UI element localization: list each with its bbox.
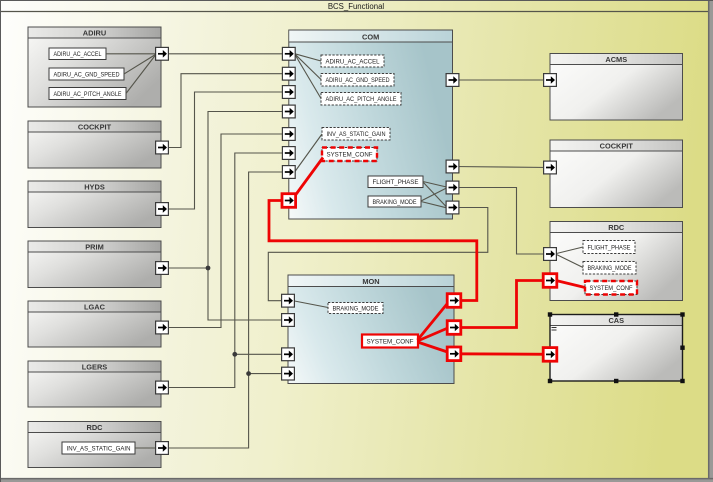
- port MON.outB red: [447, 321, 461, 335]
- block COM: [289, 30, 453, 219]
- block ACMS: [550, 54, 683, 121]
- label COM ADIRU_AC_GND_SPEED: [321, 74, 394, 87]
- port HYDS.out: [156, 203, 169, 216]
- wire PRIM branch to MON port2: [208, 268, 288, 320]
- svg-text:CAS: CAS: [608, 316, 624, 325]
- block COCKPIT left: [28, 121, 161, 168]
- svg-text:SYSTEM_CONF: SYSTEM_CONF: [327, 152, 373, 159]
- block LGAC: [28, 301, 161, 347]
- port COCKPITright.in: [544, 161, 557, 174]
- svg-text:PRIM: PRIM: [85, 242, 103, 251]
- red line MON SYSTEM_CONF to outA: [418, 302, 450, 341]
- block LGERS: [28, 361, 161, 407]
- block HYDS: [28, 181, 161, 228]
- line RDCright port to BRAKING_MODE: [557, 255, 584, 268]
- red wire MON SYSTEM_CONF to COM SYSTEM_CONF: [269, 201, 477, 301]
- port PRIM.out: [156, 262, 169, 275]
- port COM.in2: [282, 67, 295, 80]
- line FLIGHT_PHASE to out3: [423, 182, 447, 188]
- svg-text:BRAKING_MODE: BRAKING_MODE: [588, 265, 632, 272]
- label COM BRAKING_MODE: [368, 196, 421, 207]
- svg-text:COCKPIT: COCKPIT: [78, 122, 112, 131]
- label COM ADIRU_AC_PITCH_ANGLE: [321, 93, 401, 106]
- port MON.in3: [282, 348, 295, 361]
- red line MON SYSTEM_CONF to outC: [418, 342, 450, 353]
- svg-text:ADIRU_AC_GND_SPEED: ADIRU_AC_GND_SPEED: [326, 77, 390, 84]
- red wire MON SYSTEM_CONF to CAS: [454, 352, 550, 355]
- wire PRIM to COM port4: [162, 112, 288, 269]
- wire COM out2 to COCKPIT: [453, 167, 551, 168]
- red line MON SYSTEM_CONF to outB: [418, 328, 450, 342]
- label COM SYSTEM_CONF: [322, 148, 377, 162]
- port MON.in4: [282, 367, 295, 380]
- port COM.out2: [446, 160, 459, 173]
- port COM.out4: [446, 201, 459, 214]
- port ADIRU.out: [156, 47, 169, 60]
- svg-text:SYSTEM_CONF: SYSTEM_CONF: [590, 285, 633, 292]
- line MON port1 to BRAKING_MODE: [295, 301, 329, 308]
- wire COM out4 to MON port1: [268, 208, 488, 301]
- junction dot LGERS: [232, 352, 237, 357]
- svg-text:BCS_Functional: BCS_Functional: [328, 2, 385, 11]
- svg-text:LGAC: LGAC: [84, 302, 106, 311]
- line COM port7 to INV_AS_STATIC_GAIN: [295, 134, 322, 172]
- wire LGERS to COM port6: [162, 153, 288, 388]
- svg-text:ADIRU: ADIRU: [83, 28, 106, 37]
- line INV_AS_STATIC_GAIN to port: [135, 447, 156, 449]
- port ACMS.in: [544, 74, 557, 87]
- svg-text:ACMS: ACMS: [605, 55, 627, 64]
- port MON.outA red: [447, 294, 461, 308]
- wire ADIRU to COM port1: [162, 53, 288, 55]
- CAS selected border: [550, 315, 683, 382]
- red line RDCright port to SYSTEM_CONF box: [556, 281, 585, 288]
- port COM.in4: [282, 105, 295, 118]
- svg-text:ADIRU_AC_PITCH_ANGLE: ADIRU_AC_PITCH_ANGLE: [326, 96, 397, 103]
- label INV_AS_STATIC_GAIN left: [62, 442, 135, 454]
- label ADIRU_AC_PITCH_ANGLE: [49, 88, 126, 100]
- line RDCright port to FLIGHT_PHASE: [557, 247, 584, 254]
- block RDC left: [28, 422, 161, 468]
- svg-text:LGERS: LGERS: [82, 362, 108, 371]
- port CAS.in red: [543, 348, 557, 362]
- port COM.in5: [282, 128, 295, 141]
- wire LGAC to COM port5: [162, 134, 288, 328]
- label RDCright FLIGHT_PHASE: [583, 241, 635, 254]
- port MON.outC red: [447, 347, 461, 361]
- label COM INV_AS_STATIC_GAIN: [322, 128, 390, 141]
- CAS selection handles: [548, 312, 685, 383]
- port RDCright.in: [544, 248, 557, 261]
- label MON SYSTEM_CONF: [362, 335, 418, 348]
- port COM.in3: [282, 86, 295, 99]
- port COM.out3: [446, 181, 459, 194]
- junction dot RDC: [246, 371, 251, 376]
- block RDC right: [550, 222, 683, 301]
- svg-text:SYSTEM_CONF: SYSTEM_CONF: [367, 338, 414, 345]
- svg-text:FLIGHT_PHASE: FLIGHT_PHASE: [588, 244, 631, 251]
- svg-text:MON: MON: [362, 277, 379, 286]
- svg-text:ADIRU_AC_ACCEL: ADIRU_AC_ACCEL: [326, 58, 380, 65]
- port COM.in6: [282, 147, 295, 160]
- svg-text:COM: COM: [362, 32, 379, 41]
- line COM port1 to GND_SPEED: [295, 54, 321, 79]
- line ADIRU_AC_GND_SPEED to port: [124, 55, 156, 75]
- line ADIRU_AC_PITCH_ANGLE to port: [126, 55, 156, 94]
- port MON.in2: [282, 314, 295, 327]
- label MON BRAKING_MODE: [328, 303, 383, 314]
- line BRAKING_MODE to out4: [421, 202, 447, 208]
- port LGAC.out: [156, 321, 169, 334]
- line FLIGHT_PHASE to out4: [423, 182, 447, 207]
- port LGERS.out: [156, 381, 169, 394]
- red line COM port8 to SYSTEM_CONF box: [296, 158, 324, 196]
- port COCKPIT.out: [156, 141, 169, 154]
- wire RDC branch to MON port4: [249, 373, 288, 375]
- port COM.in7: [282, 166, 295, 179]
- junction dot PRIM: [206, 266, 211, 271]
- port COM.out1: [446, 74, 459, 87]
- port COM.in8 red: [282, 194, 296, 208]
- port RDCleft.out: [156, 442, 169, 455]
- label ADIRU_AC_ACCEL: [49, 48, 106, 60]
- wire LGERS branch to MON port3: [235, 353, 288, 355]
- block ADIRU: [28, 27, 161, 107]
- line COM port1 to ACCEL: [295, 54, 321, 61]
- label ADIRU_AC_GND_SPEED: [49, 68, 124, 80]
- svg-text:COCKPIT: COCKPIT: [600, 141, 634, 150]
- svg-text:INV_AS_STATIC_GAIN: INV_AS_STATIC_GAIN: [327, 131, 386, 138]
- block MON: [288, 275, 454, 384]
- label COM ADIRU_AC_ACCEL: [321, 55, 384, 67]
- red wire MON SYSTEM_CONF to RDC: [454, 281, 550, 328]
- svg-text:FLIGHT_PHASE: FLIGHT_PHASE: [373, 179, 419, 186]
- diagram title BCS_Functional: [1, 2, 709, 12]
- CAS operator glyph: [552, 328, 557, 331]
- port RDCright.in2 red: [543, 274, 557, 288]
- block PRIM: [28, 241, 161, 288]
- wire COCKPIT to COM port2: [162, 74, 288, 148]
- svg-text:ADIRU_AC_ACCEL: ADIRU_AC_ACCEL: [54, 51, 102, 58]
- block CAS: [550, 315, 683, 382]
- label COM FLIGHT_PHASE: [368, 176, 423, 188]
- line COM port1 to PITCH_ANGLE: [295, 55, 321, 99]
- port COM.in1: [282, 47, 295, 60]
- svg-text:BRAKING_MODE: BRAKING_MODE: [373, 199, 417, 206]
- wire COM out1 to ACMS: [453, 79, 551, 81]
- line ADIRU_AC_ACCEL to port: [106, 53, 156, 55]
- block COCKPIT right: [550, 140, 683, 208]
- svg-text:RDC: RDC: [86, 423, 103, 432]
- wire RDC to COM port7: [162, 172, 288, 448]
- svg-text:HYDS: HYDS: [84, 182, 105, 191]
- label RDCright BRAKING_MODE: [583, 262, 636, 275]
- label RDCright SYSTEM_CONF: [585, 281, 637, 295]
- svg-text:BRAKING_MODE: BRAKING_MODE: [333, 305, 379, 312]
- wire COM out3 to RDC: [453, 188, 551, 255]
- line BRAKING_MODE to out3: [421, 188, 447, 201]
- svg-text:ADIRU_AC_GND_SPEED: ADIRU_AC_GND_SPEED: [54, 71, 120, 78]
- port MON.in1: [282, 294, 295, 307]
- svg-text:RDC: RDC: [608, 223, 625, 232]
- wire HYDS to COM port3: [162, 92, 288, 209]
- svg-text:INV_AS_STATIC_GAIN: INV_AS_STATIC_GAIN: [67, 445, 131, 452]
- svg-text:ADIRU_AC_PITCH_ANGLE: ADIRU_AC_PITCH_ANGLE: [54, 91, 122, 98]
